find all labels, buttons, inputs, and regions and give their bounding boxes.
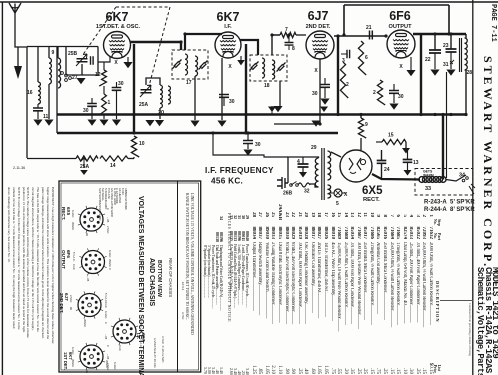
svg-text:6J7: 6J7 <box>308 9 329 23</box>
svg-text:30: 30 <box>398 94 404 100</box>
wire top-left horizontal <box>27 46 98 48</box>
resistor 14 <box>100 156 128 161</box>
IFT1 trimmer left <box>173 60 182 69</box>
svg-text:30: 30 <box>229 99 235 105</box>
wire 25A top <box>146 78 160 85</box>
svg-text:1: 1 <box>108 100 111 106</box>
wire R15 left <box>376 141 382 143</box>
voltages box outer <box>59 181 201 372</box>
IF transformer 2 dashed box <box>250 55 287 81</box>
capacitor 23 <box>446 49 457 52</box>
svg-text:33: 33 <box>425 186 431 192</box>
ground R1 <box>99 120 108 126</box>
svg-text:X: X <box>344 192 348 198</box>
svg-text:8: 8 <box>292 46 295 52</box>
ground C30 bus <box>243 150 252 156</box>
ground pot <box>80 170 88 175</box>
parts list tail A <box>204 207 223 374</box>
IFT2 secondary coil <box>272 60 275 79</box>
service notes paragraph <box>3 187 55 373</box>
antenna <box>9 3 21 13</box>
voltages box inner <box>61 183 199 370</box>
svg-text:25B: 25B <box>68 51 78 57</box>
ground IFT1 <box>190 121 199 127</box>
junction dots <box>132 113 135 116</box>
svg-text:24: 24 <box>384 167 390 173</box>
publisher name STEWART WARNER CORP <box>479 56 495 268</box>
ground V2 <box>240 56 242 60</box>
resistor 9 <box>358 118 366 138</box>
prices note <box>224 213 231 343</box>
capacitor right of 25B <box>91 56 94 64</box>
fold line <box>440 300 473 301</box>
wire V1 plate <box>130 42 181 50</box>
osc coil primary <box>49 58 51 84</box>
ground C23 <box>446 70 455 76</box>
wire R9 to rect <box>360 138 362 150</box>
IFT2 primary coil <box>262 58 265 78</box>
T29 secondary fil <box>328 185 331 198</box>
potentiometer 25A <box>76 156 98 161</box>
svg-text:6K7: 6K7 <box>106 10 129 24</box>
wire OT secondary down <box>446 72 448 178</box>
svg-text:4: 4 <box>297 159 300 165</box>
svg-text:2-11-36: 2-11-36 <box>13 166 25 170</box>
svg-text:25A: 25A <box>139 102 149 108</box>
tuning capacitor 25B <box>77 59 88 62</box>
svg-text:6: 6 <box>365 55 368 61</box>
svg-text:RECT.: RECT. <box>363 197 380 203</box>
svg-text:14: 14 <box>110 163 116 169</box>
resistor 6 <box>358 41 366 75</box>
svg-text:22: 22 <box>425 57 431 63</box>
socket 6K7 IF <box>113 320 136 343</box>
svg-text:28: 28 <box>467 70 473 76</box>
capacitor 30 out <box>389 91 399 94</box>
wire primary loop <box>310 184 319 187</box>
capacitor 21 <box>370 31 373 40</box>
ground arrow <box>17 47 19 66</box>
resistor 15 <box>382 139 406 144</box>
socket 6X5 <box>80 208 103 231</box>
ground V1 cathode <box>127 57 129 62</box>
svg-text:30: 30 <box>312 91 318 97</box>
ground C13 <box>404 170 412 176</box>
coil 16 <box>38 82 40 104</box>
osc coil 20b <box>168 86 170 104</box>
ground IFT2 area <box>0 0 1 1</box>
svg-text:1​S​T.DET. & OSC.: 1​S​T.DET. & OSC. <box>96 24 141 30</box>
wire AVC bottom <box>133 157 135 159</box>
field coil 33 <box>419 177 425 183</box>
heater rail top <box>344 4 449 6</box>
svg-text:10: 10 <box>139 141 145 147</box>
ground V2 cathode <box>217 121 226 127</box>
socket label 6J7 <box>62 293 69 323</box>
tube V5 6X5 <box>340 150 372 182</box>
socket 6J7 <box>78 294 101 317</box>
line voltage note <box>183 193 194 374</box>
capacitor 8 <box>285 43 294 46</box>
wire R7 to V3 <box>296 34 306 36</box>
transformer 29 core <box>321 148 323 200</box>
svg-text:16: 16 <box>27 90 33 96</box>
wire bold x338 <box>337 36 339 115</box>
heater rail left stub <box>343 5 345 35</box>
wire T29 to V5 <box>331 152 341 157</box>
socket label 6K7 IF <box>139 333 146 363</box>
wire bold x246 <box>245 44 247 133</box>
svg-text:OUTPUT: OUTPUT <box>389 24 413 30</box>
output transformer 28 core <box>459 38 461 72</box>
svg-text:31: 31 <box>443 62 449 68</box>
speaker dashed box <box>415 169 473 196</box>
ground 25B <box>76 78 85 84</box>
socket 6K7 det <box>80 345 103 368</box>
svg-text:12: 12 <box>95 72 101 78</box>
AC plug <box>277 177 288 189</box>
wire antenna lead <box>15 13 27 47</box>
capacitor 24 <box>377 161 387 164</box>
gang dashed line left <box>82 7 116 56</box>
ground coil20 <box>155 120 164 126</box>
pilot lamp 5 <box>334 189 342 197</box>
osc coil 20a <box>160 85 162 108</box>
partition pin annotations <box>180 282 184 296</box>
IFT1 primary coil <box>185 54 188 75</box>
svg-text:30: 30 <box>118 81 124 87</box>
osc coil secondary <box>58 58 61 88</box>
wire detector return <box>213 133 288 157</box>
triangle tie 1 <box>271 106 273 114</box>
ground bus <box>57 132 338 135</box>
IFT1 secondary coil <box>195 56 198 76</box>
wire V1 grid <box>98 57 110 62</box>
wire AVC return <box>27 158 76 160</box>
svg-text:25A: 25A <box>80 164 90 170</box>
tube V2 6K7 IF <box>215 32 241 58</box>
parts list main table <box>249 204 433 374</box>
bus tie x246 <box>245 115 247 134</box>
svg-text:6K7: 6K7 <box>217 10 240 24</box>
svg-text:23: 23 <box>443 43 449 49</box>
svg-text:29: 29 <box>311 145 317 151</box>
caption BOTTOM VIEW <box>155 260 162 292</box>
svg-text:I.F. FREQUENCY: I.F. FREQUENCY <box>205 166 274 175</box>
svg-text:456 KC.: 456 KC. <box>211 177 243 186</box>
IFT1 trimmer right <box>199 61 208 70</box>
band switch 27 <box>61 72 64 75</box>
abbreviations list <box>98 188 126 222</box>
svg-text:15: 15 <box>388 133 394 139</box>
wire V3 plate <box>334 35 386 37</box>
ground 25A <box>145 120 154 126</box>
ground under C11 <box>33 120 42 126</box>
socket label 6F6 <box>64 250 71 280</box>
svg-text:X: X <box>228 64 232 70</box>
wire 25B bottom <box>81 64 83 75</box>
capacitor 30 bus <box>243 141 253 144</box>
svg-text:6X5: 6X5 <box>362 185 383 197</box>
caption VOLTAGES MEASURED <box>133 196 144 372</box>
svg-text:26B: 26B <box>283 191 293 197</box>
resistor 1 <box>99 94 106 115</box>
svg-text:11: 11 <box>43 114 49 120</box>
svg-text:3: 3 <box>342 58 345 64</box>
wire IFT1 to ground <box>194 76 196 120</box>
capacitor 11 <box>33 108 43 111</box>
caption REAR OF CHASSIS <box>167 258 173 300</box>
svg-text:9: 9 <box>365 122 368 128</box>
svg-text:WARM: WARM <box>423 173 434 177</box>
wire bold x421 <box>420 34 422 115</box>
tube V1 6K7 <box>104 32 131 59</box>
ground C30 grid <box>87 120 96 126</box>
wire V2 cathode <box>221 58 223 120</box>
voltages box partition <box>177 181 179 372</box>
wire coil to ground <box>48 84 50 119</box>
wire sub-bus 124 <box>274 59 320 124</box>
capacitor 30 V2 <box>219 95 229 98</box>
ground under coil 9 <box>44 120 53 126</box>
capacitor 4 <box>298 164 309 167</box>
socket label 6K7 det <box>65 352 72 375</box>
wire V4 plate rail <box>413 33 466 35</box>
socket 6F6 <box>82 251 105 274</box>
IFT2 trimmer left <box>250 62 259 71</box>
speaker cone hint <box>469 184 475 194</box>
wire bold x443 <box>442 115 444 180</box>
wire OT top <box>465 34 467 38</box>
ground 30 out <box>389 104 398 110</box>
ground C22 <box>430 70 439 76</box>
wire IFT2 out <box>272 35 280 55</box>
page left border <box>1 2 3 375</box>
wire drop x49 <box>48 47 50 59</box>
ground R15 <box>402 148 410 154</box>
IFT2 trimmer right <box>277 63 286 72</box>
svg-text:I.F.: I.F. <box>224 24 232 30</box>
fold text <box>467 303 472 373</box>
wire drop x38 <box>37 47 39 83</box>
resistor 10 <box>131 136 139 157</box>
svg-text:18: 18 <box>264 83 270 89</box>
right column separator <box>472 0 474 375</box>
wire left bus vertical <box>26 47 28 158</box>
heater rail right stub <box>448 5 450 34</box>
OT28 winding <box>465 38 468 70</box>
bottom row annotations <box>104 360 108 374</box>
svg-text:32: 32 <box>304 189 310 195</box>
svg-text:30: 30 <box>83 108 89 114</box>
ground C4 <box>299 172 307 178</box>
wire left bus join <box>56 47 58 134</box>
triangle tie 2 <box>320 107 328 113</box>
socket label 6X5 <box>64 207 71 237</box>
resistor 2a <box>340 62 348 98</box>
page number <box>486 4 497 44</box>
gang dashed line right <box>149 7 170 86</box>
wire R15 right ground <box>405 142 407 148</box>
switch 26B <box>290 184 293 187</box>
T29 secondary HV <box>328 151 331 180</box>
ground C30 cath <box>112 120 121 126</box>
wire V2 plate <box>240 40 258 55</box>
junction triangle a <box>0 0 1 1</box>
svg-text:21: 21 <box>366 25 372 31</box>
svg-text:6F6: 6F6 <box>389 9 411 23</box>
model note <box>476 267 498 375</box>
ground IFT2 <box>273 106 282 112</box>
parts table header <box>432 219 441 373</box>
capacitor 30 V3 <box>320 85 330 88</box>
svg-text:2: 2 <box>373 90 376 96</box>
capacitor 13 <box>403 160 413 163</box>
ground V4 <box>410 57 412 70</box>
parts list tail B <box>230 206 249 375</box>
svg-text:9: 9 <box>52 50 55 56</box>
svg-text:7: 7 <box>285 27 288 33</box>
wire drop x58 <box>57 47 59 59</box>
svg-text:30: 30 <box>255 142 261 148</box>
B+ bus <box>57 113 466 116</box>
gang capacitor 25A <box>141 90 152 93</box>
caption AND CHASSIS <box>145 258 155 298</box>
capacitor 30 grid <box>87 104 97 107</box>
wire 25B loop <box>66 47 98 76</box>
wire coil20 bottom <box>159 108 161 119</box>
svg-text:17: 17 <box>186 80 192 86</box>
page top border <box>0 1 498 3</box>
wire spkr leads <box>446 175 466 181</box>
resistor 12 <box>99 70 106 86</box>
wire IFT1 secondary top <box>185 34 222 50</box>
gang dashed line top <box>116 6 170 8</box>
wire bold x134 <box>133 44 135 133</box>
IF transformer 1 dashed box <box>172 50 208 79</box>
wire V5 output <box>372 174 420 180</box>
svg-text:X: X <box>399 64 403 70</box>
svg-text:13: 13 <box>413 160 419 166</box>
resistor 7 <box>280 32 296 37</box>
wire OT bottom to bus <box>465 70 467 115</box>
capacitor 3 <box>347 50 350 58</box>
svg-text:X: X <box>114 60 118 66</box>
R9 bus stub <box>360 115 362 119</box>
svg-text:2: 2 <box>346 82 349 88</box>
tube V3 6J7 <box>306 31 334 59</box>
resistor 2b <box>377 80 385 105</box>
ground 30 V3 <box>320 99 329 105</box>
capacitor 30 cath <box>112 88 122 91</box>
tube V4 6F6 <box>387 30 415 58</box>
T29 primary <box>315 158 318 187</box>
capacitor 22 <box>429 50 441 53</box>
svg-text:2​N​D DET.: 2​N​D DET. <box>306 24 331 30</box>
socket pin voltage annotations <box>70 210 74 226</box>
wire IFT2 ground <box>279 81 281 106</box>
wire R14 to R10 <box>128 158 134 160</box>
svg-text:X: X <box>314 68 318 74</box>
fuse 32 <box>298 183 310 187</box>
ground V3 cathode <box>311 121 320 127</box>
